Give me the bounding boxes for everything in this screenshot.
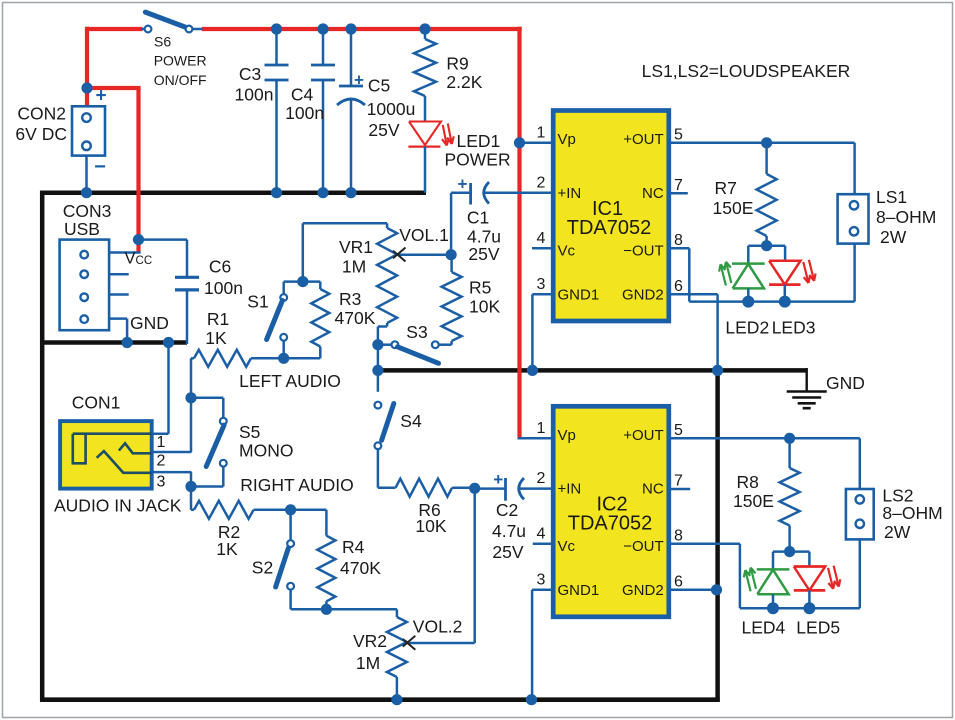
svg-text:+: + bbox=[354, 71, 364, 90]
svg-text:R4: R4 bbox=[342, 537, 365, 557]
svg-text:2: 2 bbox=[537, 175, 546, 192]
svg-text:2: 2 bbox=[537, 470, 546, 487]
svg-text:100n: 100n bbox=[204, 278, 243, 298]
svg-text:5: 5 bbox=[674, 127, 683, 144]
svg-text:POWER: POWER bbox=[445, 150, 511, 170]
svg-text:C2: C2 bbox=[496, 500, 518, 520]
svg-text:+: + bbox=[493, 470, 503, 489]
svg-text:C4: C4 bbox=[291, 84, 314, 104]
svg-text:1: 1 bbox=[157, 434, 166, 451]
svg-text:VR1: VR1 bbox=[339, 237, 373, 257]
svg-text:CON3: CON3 bbox=[63, 201, 112, 221]
svg-text:6V DC: 6V DC bbox=[15, 124, 67, 144]
svg-text:R7: R7 bbox=[715, 178, 737, 198]
svg-text:10K: 10K bbox=[415, 516, 446, 536]
svg-text:CON1: CON1 bbox=[72, 393, 121, 413]
svg-text:LEFT AUDIO: LEFT AUDIO bbox=[239, 371, 341, 391]
svg-text:R9: R9 bbox=[446, 54, 468, 74]
svg-text:6: 6 bbox=[674, 278, 683, 295]
svg-text:NC: NC bbox=[642, 185, 664, 202]
svg-text:R1: R1 bbox=[207, 309, 229, 329]
svg-text:+OUT: +OUT bbox=[623, 427, 663, 444]
svg-text:TDA7052: TDA7052 bbox=[568, 513, 653, 535]
svg-text:S6: S6 bbox=[154, 34, 171, 50]
svg-text:S4: S4 bbox=[400, 411, 422, 431]
svg-text:10K: 10K bbox=[469, 297, 500, 317]
svg-text:+IN: +IN bbox=[558, 481, 582, 498]
svg-text:150E: 150E bbox=[733, 491, 774, 511]
svg-text:R3: R3 bbox=[339, 289, 361, 309]
svg-text:100n: 100n bbox=[285, 103, 324, 123]
svg-text:2W: 2W bbox=[880, 227, 907, 247]
svg-text:LS1,LS2=LOUDSPEAKER: LS1,LS2=LOUDSPEAKER bbox=[642, 61, 851, 81]
svg-text:LED5: LED5 bbox=[796, 618, 840, 638]
svg-text:8–OHM: 8–OHM bbox=[882, 503, 942, 523]
svg-text:1: 1 bbox=[537, 125, 546, 142]
svg-text:USB: USB bbox=[64, 219, 100, 239]
svg-text:25V: 25V bbox=[492, 542, 523, 562]
svg-text:VOL.1: VOL.1 bbox=[399, 225, 449, 245]
svg-text:GND: GND bbox=[826, 373, 865, 393]
svg-text:6: 6 bbox=[674, 574, 683, 591]
svg-text:S2: S2 bbox=[252, 558, 273, 578]
svg-text:2.2K: 2.2K bbox=[446, 72, 482, 92]
svg-text:470K: 470K bbox=[335, 308, 376, 328]
svg-text:1K: 1K bbox=[216, 539, 238, 559]
svg-text:GND1: GND1 bbox=[558, 287, 600, 304]
svg-text:+IN: +IN bbox=[558, 185, 582, 202]
svg-text:3: 3 bbox=[537, 572, 546, 589]
svg-text:7: 7 bbox=[674, 473, 683, 490]
svg-text:TDA7052: TDA7052 bbox=[567, 217, 652, 239]
svg-text:LS1: LS1 bbox=[876, 187, 907, 207]
svg-text:C5: C5 bbox=[368, 76, 390, 96]
svg-text:1: 1 bbox=[537, 420, 546, 437]
svg-text:150E: 150E bbox=[713, 198, 754, 218]
svg-text:4.7u: 4.7u bbox=[492, 521, 526, 541]
svg-text:POWER: POWER bbox=[154, 53, 207, 69]
svg-text:CON2: CON2 bbox=[17, 104, 66, 124]
svg-text:LED4: LED4 bbox=[742, 618, 786, 638]
svg-text:S1: S1 bbox=[247, 292, 268, 312]
svg-text:RIGHT AUDIO: RIGHT AUDIO bbox=[240, 475, 353, 495]
svg-text:LED2: LED2 bbox=[725, 318, 769, 338]
svg-text:+: + bbox=[458, 175, 468, 194]
svg-text:GND2: GND2 bbox=[622, 287, 664, 304]
svg-text:3: 3 bbox=[157, 474, 166, 491]
svg-text:MONO: MONO bbox=[239, 441, 293, 461]
svg-text:8: 8 bbox=[674, 528, 683, 545]
svg-text:C3: C3 bbox=[239, 64, 261, 84]
svg-text:1M: 1M bbox=[342, 257, 366, 277]
svg-text:5: 5 bbox=[674, 422, 683, 439]
svg-text:25V: 25V bbox=[468, 244, 499, 264]
svg-text:4: 4 bbox=[537, 526, 546, 543]
svg-text:2: 2 bbox=[157, 453, 166, 470]
svg-text:2W: 2W bbox=[884, 522, 911, 542]
svg-text:+OUT: +OUT bbox=[623, 131, 663, 148]
svg-text:−OUT: −OUT bbox=[623, 243, 663, 260]
svg-text:4: 4 bbox=[537, 230, 546, 247]
svg-text:R8: R8 bbox=[737, 472, 759, 492]
svg-text:1000u: 1000u bbox=[367, 99, 416, 119]
svg-text:C1: C1 bbox=[467, 208, 489, 228]
svg-text:S3: S3 bbox=[406, 322, 427, 342]
svg-text:Vp: Vp bbox=[558, 131, 576, 148]
svg-text:Vc: Vc bbox=[558, 538, 576, 555]
svg-text:Vp: Vp bbox=[558, 427, 576, 444]
svg-text:Vc: Vc bbox=[558, 243, 576, 260]
svg-text:8: 8 bbox=[674, 232, 683, 249]
svg-text:GND2: GND2 bbox=[622, 582, 664, 599]
svg-text:−: − bbox=[94, 156, 106, 178]
svg-text:+: + bbox=[95, 86, 106, 107]
svg-text:8–OHM: 8–OHM bbox=[876, 207, 936, 227]
svg-text:VOL.2: VOL.2 bbox=[413, 617, 463, 637]
svg-text:GND: GND bbox=[130, 313, 169, 333]
svg-text:3: 3 bbox=[537, 276, 546, 293]
svg-text:LED1: LED1 bbox=[457, 131, 501, 151]
svg-text:NC: NC bbox=[642, 481, 664, 498]
svg-text:AUDIO IN JACK: AUDIO IN JACK bbox=[54, 496, 182, 516]
svg-text:7: 7 bbox=[674, 177, 683, 194]
svg-text:100n: 100n bbox=[235, 85, 274, 105]
svg-text:−OUT: −OUT bbox=[623, 538, 663, 555]
svg-text:470K: 470K bbox=[340, 558, 381, 578]
svg-text:LED3: LED3 bbox=[772, 318, 816, 338]
svg-text:GND1: GND1 bbox=[558, 582, 600, 599]
svg-text:25V: 25V bbox=[368, 120, 399, 140]
svg-text:R5: R5 bbox=[469, 278, 491, 298]
svg-text:VR2: VR2 bbox=[353, 631, 387, 651]
svg-text:S5: S5 bbox=[239, 422, 260, 442]
svg-text:C6: C6 bbox=[209, 257, 231, 277]
svg-text:1K: 1K bbox=[205, 328, 227, 348]
svg-text:1M: 1M bbox=[356, 653, 380, 673]
svg-text:ON/OFF: ON/OFF bbox=[154, 72, 207, 88]
